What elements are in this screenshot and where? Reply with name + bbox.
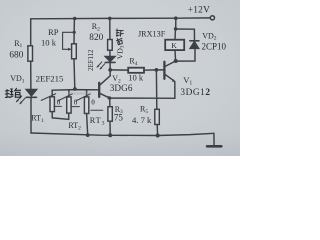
svg-text:680: 680	[9, 50, 23, 60]
VD1 emission arrows	[16, 96, 26, 105]
paper background	[0, 0, 240, 156]
svg-text:10 k: 10 k	[128, 73, 144, 83]
label V1 3DG12	[180, 75, 210, 98]
node: R2 junction on +12V rail	[108, 17, 112, 21]
wire: tee down to relay coil top	[174, 29, 177, 40]
node: relay/VD2 tee	[174, 27, 178, 31]
wire: bottom ground rail	[31, 133, 214, 136]
label theta1	[57, 97, 61, 106]
thermistor RT1	[41, 90, 61, 118]
transistor V1 collector lead	[165, 61, 176, 67]
thermistor RT2	[58, 90, 79, 113]
node: V2 emitter / R3 junction	[108, 96, 111, 99]
label theta2	[74, 98, 78, 107]
svg-text:+12V: +12V	[188, 6, 210, 16]
wire: junction right to VD2 bottom	[176, 49, 195, 62]
wire: thermistor/base rail	[52, 89, 99, 92]
label 绿色 (green) hand-drawn glyphs	[5, 88, 20, 97]
svg-text:θ: θ	[74, 98, 78, 107]
faint scan smudge	[68, 92, 91, 94]
svg-text:10 k: 10 k	[41, 38, 57, 48]
svg-text:4. 7 k: 4. 7 k	[132, 115, 152, 125]
svg-text:θ: θ	[91, 98, 95, 107]
node: relay top junction on +12V rail	[174, 16, 178, 20]
wire: RT3 bottom to ground rail	[87, 114, 88, 136]
transistor V2 (3DG6) base bar	[98, 83, 100, 97]
label RT2	[68, 121, 81, 131]
potentiometer RP	[72, 44, 77, 59]
label R2 820	[89, 22, 103, 43]
label 2EF112 (rotated)	[86, 49, 95, 71]
svg-text:75: 75	[114, 113, 124, 123]
resistor R5	[155, 109, 160, 124]
node: RP junction on +12V rail	[73, 17, 77, 21]
svg-text:820: 820	[89, 33, 103, 43]
transistor V2 emitter lead with arrow	[100, 93, 110, 98]
wire: RT1-RT2 bottom bus	[52, 113, 68, 119]
wire: rail to RP top	[73, 19, 75, 44]
wire: VD1 cathode down to bottom-left corner	[30, 97, 32, 133]
resistor R2	[108, 40, 113, 51]
label R3 75	[114, 105, 124, 123]
wire: emitter rail to R3	[109, 98, 111, 107]
svg-text:3DG12: 3DG12	[180, 88, 210, 98]
diode VD2 (2CP10)	[190, 41, 199, 49]
svg-text:2EF112: 2EF112	[86, 49, 95, 71]
relay coil K	[165, 40, 184, 50]
label RT1	[31, 114, 44, 124]
transistor V2 collector lead	[100, 76, 110, 85]
wire: junction up to relay coil	[174, 50, 177, 61]
label RT3	[90, 116, 106, 126]
svg-text:JRX13F: JRX13F	[138, 29, 166, 38]
wire: left rail from top corner down to R1	[30, 19, 32, 46]
label VD2 2CP10	[202, 31, 227, 51]
label VD1 2EF215	[10, 73, 64, 84]
node: R3 to ground rail	[108, 133, 112, 137]
wire: R3 to ground rail	[109, 121, 111, 135]
thermistor RT3	[76, 90, 103, 114]
node: RP to thermistor rail	[73, 87, 77, 91]
wire: R5 to ground rail	[156, 125, 158, 136]
label R5 4.7k	[132, 105, 152, 126]
label V2 3DG6	[110, 74, 133, 93]
LED VD3 (red, 2EF112)	[105, 56, 115, 62]
wire: +12V top supply rail	[31, 17, 211, 20]
node: V1 collector / relay / VD2 junction	[174, 59, 178, 63]
LED VD1 (green, 2EF215)	[26, 89, 37, 97]
svg-text:θ: θ	[57, 97, 61, 106]
wire: tee right and down to VD2 cathode	[176, 29, 195, 41]
wire: VD3 to junction to V2 collector	[109, 62, 111, 75]
node: VD3 cathode / R4 / V2 collector junction	[108, 68, 112, 72]
wire: V1 emitter down to emitter rail	[174, 82, 176, 99]
wire: junction down to R5 (crosses emitter rail)	[155, 70, 157, 109]
RP wiper arm	[63, 32, 75, 51]
svg-text:K: K	[171, 41, 177, 50]
label 红色 VD3 (rotated column)	[116, 29, 123, 45]
node: RT3 to ground rail	[86, 133, 90, 137]
node: R5 to ground rail	[156, 134, 160, 138]
wire: junction to V1 base	[156, 69, 163, 71]
label R1 680	[9, 39, 23, 60]
svg-text:2EF215: 2EF215	[36, 73, 64, 83]
resistor R1	[28, 46, 33, 61]
label theta3	[91, 98, 95, 107]
label R4 10k	[128, 57, 144, 83]
label RP 10k	[41, 27, 59, 48]
wire: rail down to relay/VD2 tee	[175, 18, 177, 29]
wire: RP bottom down to base rail	[73, 59, 76, 89]
wire: ground drop	[213, 133, 215, 145]
wire: rail to R2	[109, 18, 111, 39]
ground	[207, 145, 221, 148]
terminal: +12V input circle	[210, 16, 214, 20]
wire: R1 to VD1	[30, 61, 32, 89]
svg-text:RP: RP	[48, 27, 59, 37]
svg-text:3DG6: 3DG6	[110, 83, 133, 93]
label +12V	[188, 6, 210, 16]
label JRX13F	[138, 29, 166, 38]
svg-text:2CP10: 2CP10	[202, 41, 227, 51]
resistor R4 (horizontal)	[110, 69, 128, 71]
node: V1 base / R5 junction	[155, 68, 159, 72]
resistor R3	[108, 107, 112, 122]
transistor V1 (3DG12) base bar	[163, 62, 165, 79]
VD3 emission arrows	[96, 62, 104, 70]
node: RP wiper tie	[73, 31, 76, 34]
wire: R2 to VD3	[109, 50, 111, 56]
wire: emitter rail V2-V1	[109, 97, 174, 99]
transistor V1 emitter lead with arrow	[165, 74, 174, 81]
